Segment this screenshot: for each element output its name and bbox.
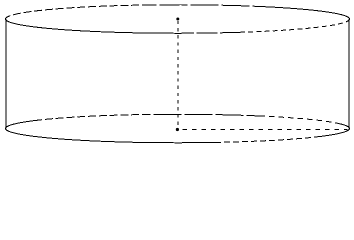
bottom ellipse front-right arc (solid) <box>320 129 350 137</box>
bottom ellipse back arc long dashes <box>150 114 264 116</box>
top ellipse front arc long dashes <box>190 31 240 34</box>
top ellipse back arc long dashes <box>150 5 256 7</box>
axis dashed line <box>177 21 179 127</box>
top ellipse back-right arc (solid) <box>256 6 350 19</box>
bottom ellipse back-right nose (solid) <box>341 124 350 129</box>
bottom ellipse back-left end (solid) <box>6 121 35 129</box>
top ellipse front-left arc (solid) <box>6 19 191 33</box>
bottom ellipse front-mid arc (dashed) <box>215 136 320 142</box>
radius dashed line <box>183 128 348 130</box>
top ellipse back-left arc (dashed) <box>6 5 151 19</box>
bottom ellipse back-right arc (dashed) <box>264 116 341 124</box>
bottom center dot <box>176 128 179 131</box>
bottom ellipse back-left arc (dashed) <box>34 114 150 120</box>
bottom ellipse front-left arc (solid) <box>6 129 216 143</box>
right side of cylinder <box>348 19 350 129</box>
left side of cylinder <box>5 19 7 129</box>
top center dot <box>176 18 179 21</box>
top ellipse front-right arc (dashed) <box>240 19 350 32</box>
